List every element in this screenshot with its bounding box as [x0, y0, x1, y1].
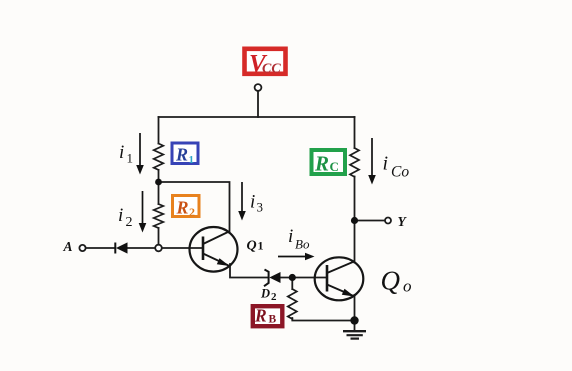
svg-text:i: i — [119, 142, 124, 163]
svg-text:o: o — [403, 277, 412, 296]
svg-text:1: 1 — [258, 239, 264, 253]
svg-text:CC: CC — [262, 62, 281, 77]
svg-text:D: D — [260, 287, 270, 301]
svg-text:2: 2 — [189, 205, 195, 219]
svg-text:i: i — [250, 192, 255, 213]
svg-text:R: R — [254, 306, 267, 326]
svg-text:Y: Y — [398, 214, 408, 229]
svg-text:R: R — [314, 152, 329, 176]
svg-text:R: R — [175, 145, 188, 165]
svg-text:2: 2 — [126, 215, 133, 230]
svg-text:Q: Q — [381, 266, 401, 296]
svg-text:i: i — [288, 226, 293, 247]
svg-text:3: 3 — [257, 200, 264, 215]
svg-text:i: i — [383, 153, 389, 175]
svg-text:Bo: Bo — [295, 237, 310, 252]
svg-text:Q: Q — [247, 239, 257, 254]
svg-text:i: i — [118, 205, 123, 226]
svg-text:1: 1 — [127, 151, 134, 166]
svg-text:2: 2 — [271, 291, 277, 303]
svg-text:C: C — [330, 159, 339, 174]
svg-text:1: 1 — [189, 154, 195, 166]
svg-text:Co: Co — [391, 164, 409, 181]
svg-text:A: A — [63, 239, 73, 254]
svg-text:B: B — [269, 314, 277, 326]
svg-text:R: R — [176, 198, 189, 218]
